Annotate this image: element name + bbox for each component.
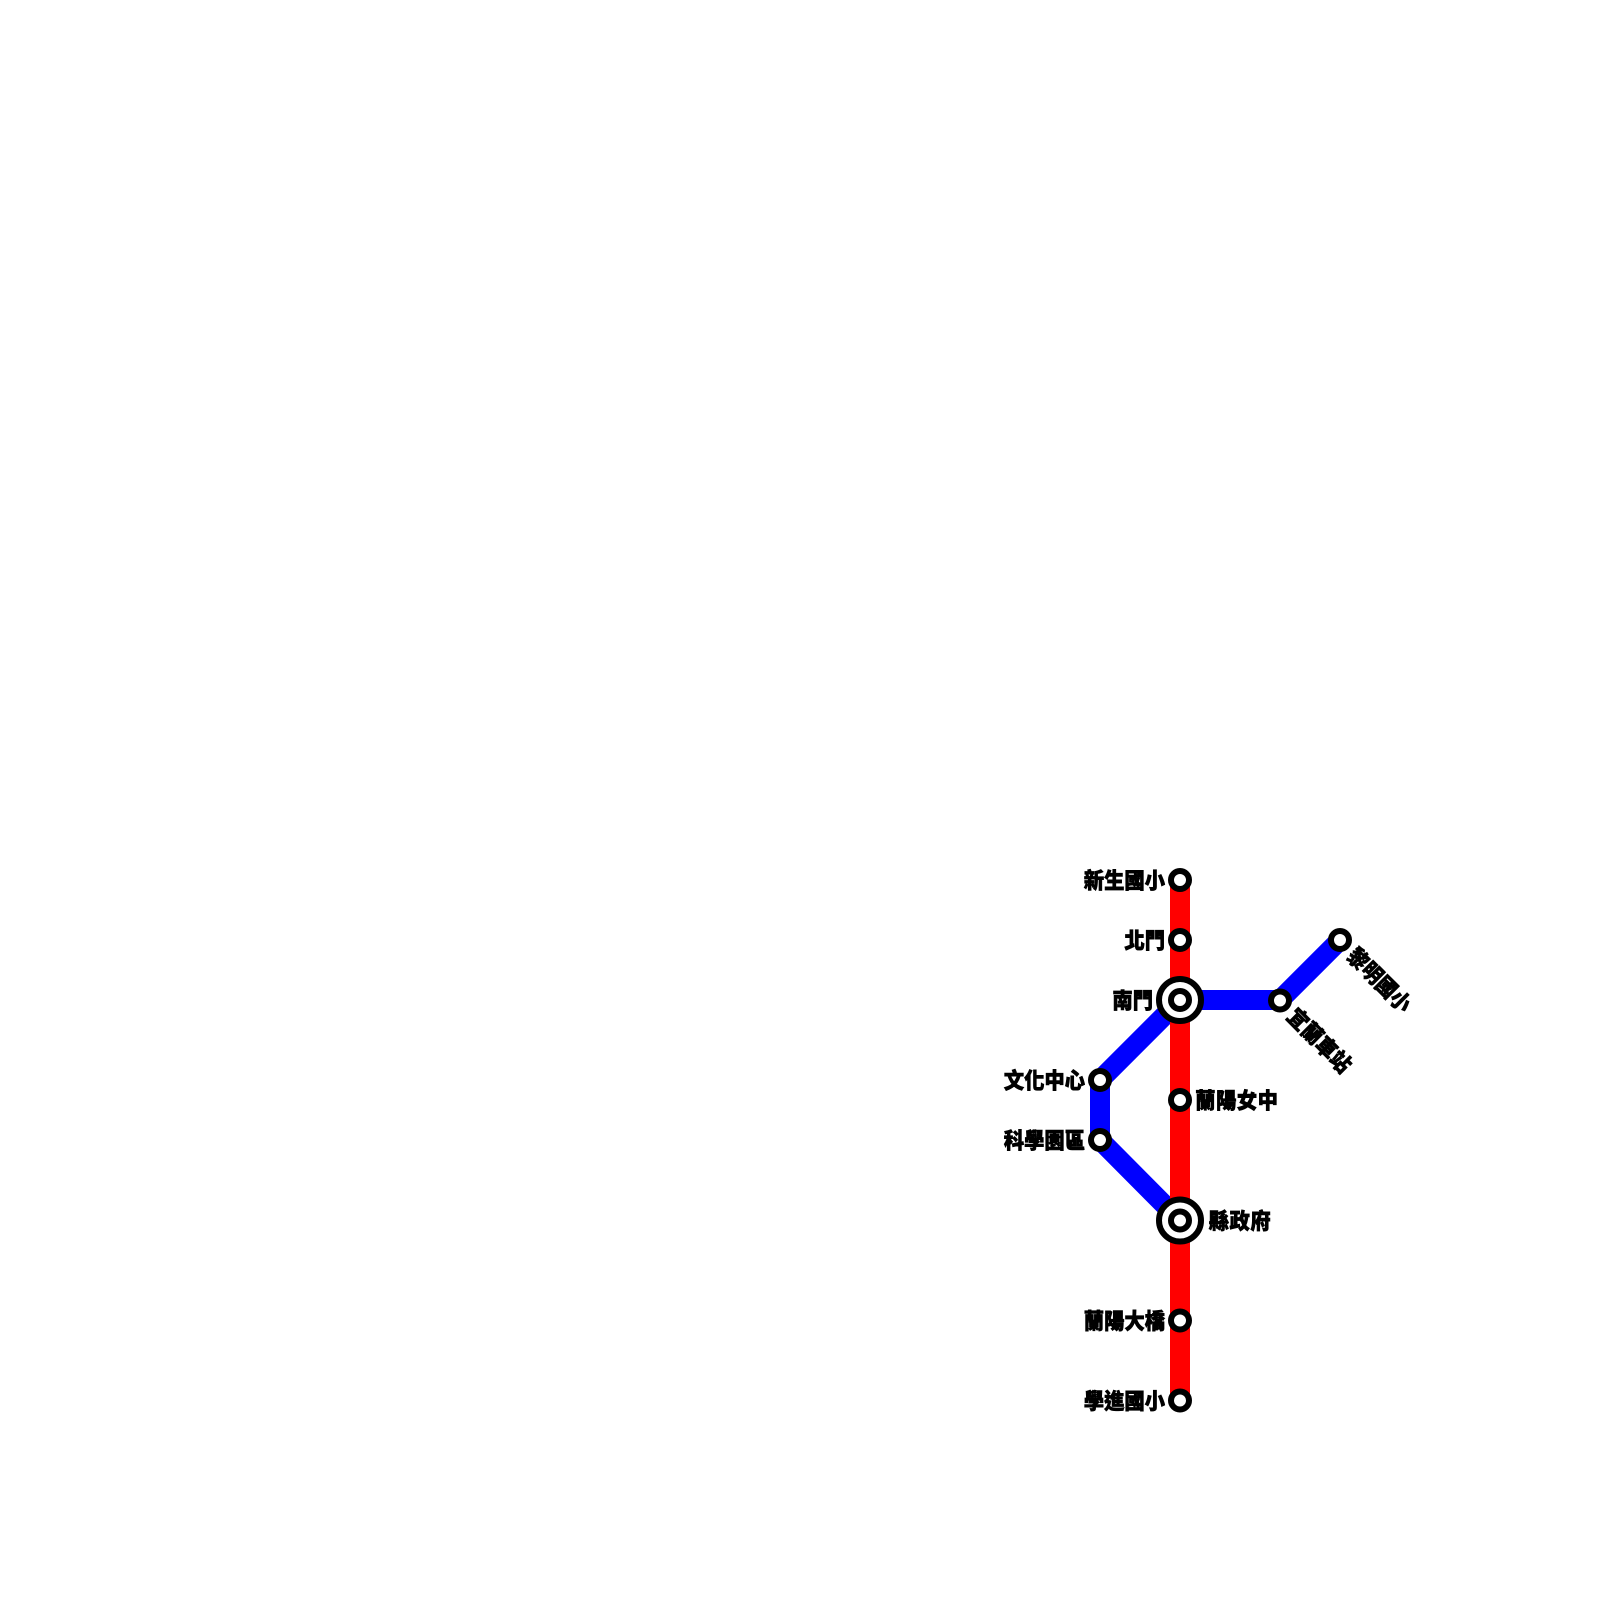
station 蘭陽大橋st bbox=[1171, 1312, 1189, 1330]
blue line (黎明國小-宜蘭車站-南門-文化中心-科學園區-縣政府) bbox=[1100, 940, 1340, 1221]
station 新生國小st bbox=[1171, 871, 1189, 889]
station 黎明國小st bbox=[1331, 931, 1349, 949]
station 縣政府 interchange bbox=[1159, 1200, 1201, 1242]
station 北門st bbox=[1171, 931, 1189, 949]
station label 縣政府 bbox=[1209, 1210, 1270, 1232]
station label 宜蘭車站 bbox=[1285, 1005, 1355, 1075]
station 宜蘭車站st bbox=[1271, 992, 1289, 1010]
station 科學園區st bbox=[1091, 1131, 1109, 1149]
red line (新生國小-學進國小) bbox=[1170, 880, 1190, 1401]
station label 南門 bbox=[1113, 990, 1151, 1011]
station 學進國小st bbox=[1171, 1392, 1189, 1410]
station 蘭陽女中st bbox=[1171, 1091, 1189, 1109]
station label 新生國小 bbox=[1084, 869, 1165, 891]
station label 文化中心 bbox=[1004, 1069, 1085, 1091]
station 南門 interchange bbox=[1159, 979, 1201, 1021]
station label 科學園區 bbox=[1004, 1129, 1084, 1150]
station label 北門 bbox=[1125, 930, 1164, 951]
station 文化中心st bbox=[1091, 1071, 1109, 1089]
station label 蘭陽大橋 bbox=[1085, 1310, 1165, 1331]
station label 蘭陽女中 bbox=[1196, 1089, 1276, 1110]
station label 黎明國小 bbox=[1344, 944, 1415, 1015]
station label 學進國小 bbox=[1085, 1390, 1165, 1411]
